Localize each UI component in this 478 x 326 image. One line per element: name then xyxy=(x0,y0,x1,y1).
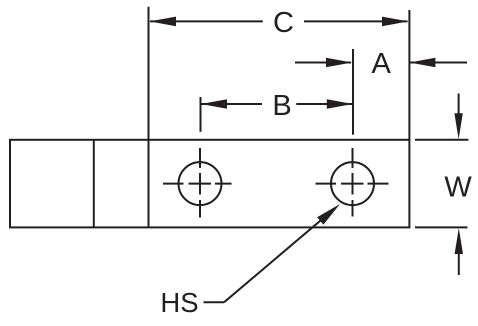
extension line x=200.5 (hole 1 center) xyxy=(200,97,202,132)
feature line / extension line x=148.5 xyxy=(148,7,150,228)
dimension B line left xyxy=(202,103,263,105)
hole 2 centerline left xyxy=(316,183,337,185)
extension line right edge x=409.4 xyxy=(408,10,410,140)
hole 2 center cross xyxy=(352,173,354,195)
svg-text:W: W xyxy=(444,172,472,204)
W up arrow head xyxy=(455,228,463,254)
dimension A arrow right (points left) xyxy=(409,58,435,68)
dimension A line right xyxy=(410,62,467,64)
W top extension line xyxy=(415,139,469,141)
hole 2 centerline bottom xyxy=(352,200,354,217)
W bottom extension line xyxy=(415,226,468,228)
hole 2 centerline right xyxy=(368,183,389,185)
hole 1 center cross xyxy=(199,173,201,195)
hole 2 centerline top xyxy=(352,148,354,168)
svg-text:HS: HS xyxy=(160,287,198,318)
dimension B line right xyxy=(296,103,352,105)
hole 2 circle xyxy=(331,162,374,205)
dimension C line right xyxy=(304,20,408,22)
hole 1 centerline top xyxy=(199,148,201,168)
part outline xyxy=(10,140,409,228)
W down arrow tail xyxy=(458,94,460,116)
hole 1 centerline left xyxy=(163,183,184,185)
feature line x=94 xyxy=(93,140,95,228)
svg-text:B: B xyxy=(272,90,291,122)
extension line x=353 (hole 2 center) xyxy=(352,49,354,135)
hole 1 centerline bottom xyxy=(199,200,201,218)
dimension B arrow left xyxy=(201,99,227,109)
dimension C arrow left xyxy=(150,17,177,27)
dimension B arrow right xyxy=(327,99,353,109)
hole 1 centerline right xyxy=(215,183,232,185)
W up arrow tail xyxy=(458,253,460,275)
dimension A arrow left (points right) xyxy=(326,58,352,68)
HS leader horizontal xyxy=(204,301,225,303)
hole 1 circle xyxy=(179,162,222,205)
dimension C arrow right xyxy=(382,17,408,27)
dimension C line left xyxy=(150,20,263,22)
svg-text:A: A xyxy=(372,48,392,80)
dimension A line left xyxy=(295,62,351,64)
W down arrow head xyxy=(454,113,462,139)
HS leader diagonal xyxy=(224,211,332,302)
HS leader arrowhead xyxy=(317,204,340,225)
svg-text:C: C xyxy=(273,7,294,39)
